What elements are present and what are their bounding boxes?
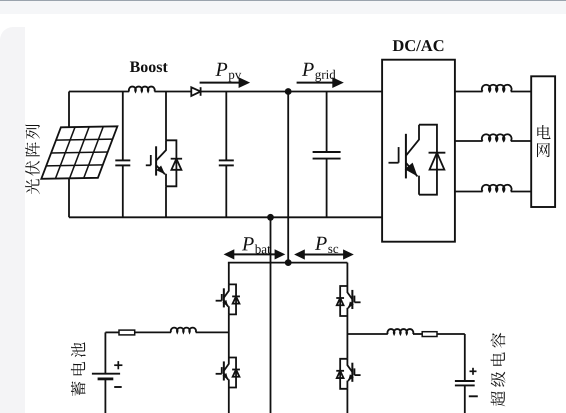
wire sc leg mid <box>346 316 348 359</box>
inductor L2 battery <box>171 328 196 333</box>
wire battery leg mid <box>228 314 230 357</box>
arrow P_pv <box>200 77 251 88</box>
wire PV branch upper <box>68 92 70 128</box>
label 蓄电池 <box>71 342 86 396</box>
label P_grid <box>302 63 336 82</box>
wire DC- drop <box>270 217 272 413</box>
label P_pv <box>215 63 241 82</box>
wire battery leg lower <box>228 388 230 413</box>
label 光伏阵列 <box>25 124 40 194</box>
capacitor C2 <box>219 92 234 218</box>
sc minus <box>469 395 478 397</box>
IGBT Q2 inverter <box>389 125 446 195</box>
label Boost <box>130 62 168 73</box>
wire legs top bus <box>228 262 348 264</box>
wire phase Lb right <box>511 140 531 142</box>
inductor Lb <box>482 134 512 141</box>
wire boost switch upper <box>165 92 167 141</box>
IGBT Q4 battery bottom <box>216 358 240 388</box>
inverter U1 box <box>382 60 455 242</box>
capacitor C1 <box>115 92 130 218</box>
wire phase Lb left <box>455 140 483 142</box>
inductor L3 sc <box>387 329 413 334</box>
wire sc midline <box>347 333 464 335</box>
node J2 bottom rail <box>267 214 274 221</box>
grid box <box>531 76 555 207</box>
wire phase Lc right <box>511 191 531 193</box>
solar PV array <box>41 126 117 179</box>
wire boost switch lower <box>165 186 167 217</box>
wire sc leg upper <box>346 263 348 286</box>
battery minus <box>114 386 122 388</box>
IGBT Q3 battery top <box>216 284 240 314</box>
label P_sc <box>315 237 338 253</box>
diode D1 <box>191 87 200 96</box>
label DC/AC <box>393 40 444 51</box>
arrow P_sc <box>294 249 354 259</box>
resistor R2 <box>422 332 437 337</box>
inductor L1 boost <box>129 87 155 92</box>
inductor La <box>482 85 512 92</box>
wire PV branch lower <box>68 178 70 217</box>
battery plus <box>114 361 122 369</box>
inductor Lc <box>482 185 512 192</box>
label P_bat <box>242 237 271 253</box>
IGBT Q5 sc top <box>336 286 360 316</box>
wire phase Lc left <box>455 191 483 193</box>
wire sc leg lower <box>346 389 348 413</box>
wire bottom DC- rail <box>69 216 382 218</box>
wire phase La left <box>455 91 483 93</box>
label 电网 <box>537 125 551 157</box>
sc plus <box>470 368 477 375</box>
battery BT1 <box>92 332 120 413</box>
capacitor C3 <box>313 92 341 218</box>
IGBT Q6 sc bottom <box>336 359 360 389</box>
resistor R1 <box>119 330 135 335</box>
wire battery leg upper <box>228 263 230 285</box>
IGBT Q1 boost switch <box>146 140 182 186</box>
node J1 top rail <box>285 88 292 95</box>
wire battery midline <box>105 331 228 333</box>
wire top DC+ rail <box>69 91 382 93</box>
node J3 legs bus <box>285 259 292 266</box>
wire phase La right <box>511 91 531 93</box>
wire DC+ drop <box>287 92 289 263</box>
arrow P_bat <box>224 249 286 259</box>
supercapacitor C4 <box>455 334 475 413</box>
label 超级电容 <box>491 333 506 406</box>
arrow P_grid <box>297 77 344 88</box>
